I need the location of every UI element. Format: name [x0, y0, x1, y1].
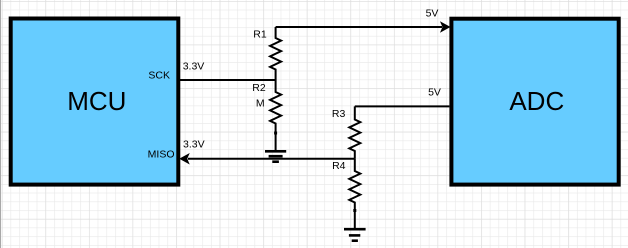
wire 5V net from R1 top to ADC with arrowhead: [276, 22, 450, 31]
svg-text:3.3V: 3.3V: [183, 61, 205, 73]
svg-text:5V: 5V: [428, 87, 441, 99]
svg-text:ADC: ADC: [509, 86, 564, 116]
junction at R4 bottom: [353, 209, 356, 212]
wire SCK net from MCU to R1/R2 junction: [180, 79, 276, 81]
resistor R1: [270, 27, 281, 80]
svg-text:MCU: MCU: [67, 86, 126, 116]
svg-text:SCK: SCK: [148, 69, 170, 81]
ground: [344, 229, 366, 241]
ground: [265, 151, 286, 161]
svg-text:MISO: MISO: [148, 148, 175, 160]
resistor R2: [270, 80, 281, 133]
wire 5V net from R3 top to ADC: [355, 105, 450, 107]
resistor R4: [349, 159, 360, 211]
svg-text:5V: 5V: [426, 7, 439, 19]
block ADC: [451, 19, 618, 185]
svg-text:R2: R2: [252, 82, 266, 94]
svg-text:M: M: [256, 98, 265, 110]
junction at R2 bottom: [274, 132, 277, 135]
svg-text:R1: R1: [253, 29, 267, 41]
wire R4 bottom to ground: [354, 211, 356, 230]
wire MISO net from R3/R4 junction to MCU with arrowhead: [180, 154, 354, 163]
resistor R3: [349, 106, 360, 158]
svg-text:R4: R4: [332, 160, 346, 172]
svg-text:3.3V: 3.3V: [183, 139, 205, 151]
block MCU: [11, 19, 179, 185]
svg-text:R3: R3: [332, 108, 346, 120]
wire R2 bottom to ground: [275, 133, 277, 151]
